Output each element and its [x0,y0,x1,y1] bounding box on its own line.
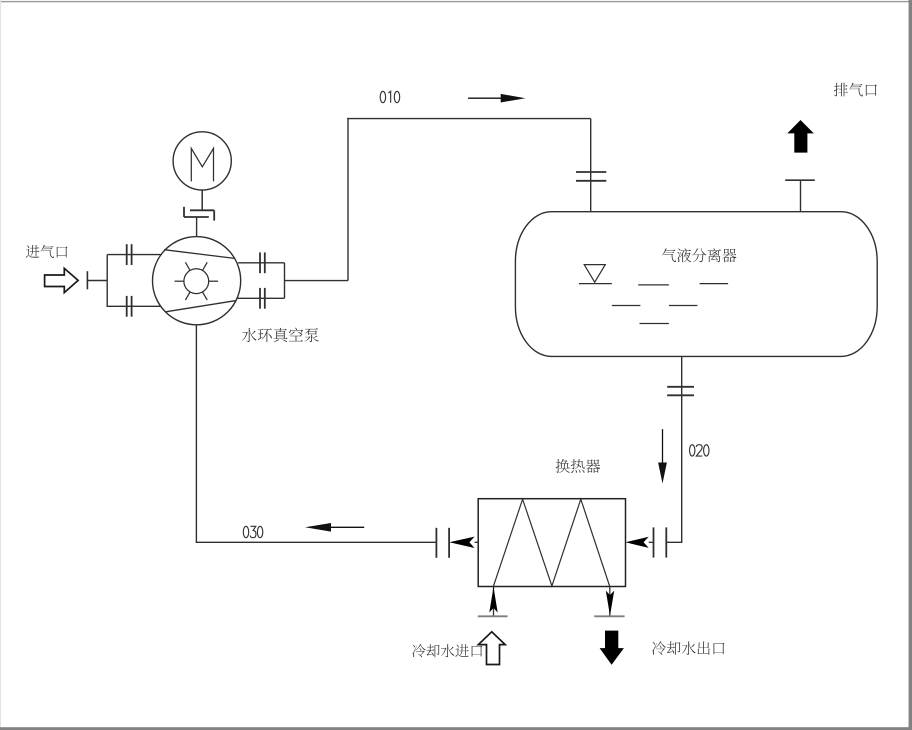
pump body circle [153,237,241,325]
page left faint border [0,0,1,730]
pipe 030 horizontal [196,541,437,543]
hollow cooling water arrow up [478,632,505,665]
exchanger right flange [654,527,667,557]
separator inlet drop pipe [590,119,592,212]
separator drain pipe [681,356,683,542]
exchanger left flange [436,528,449,558]
coupling bracket [184,207,214,221]
cooling water inlet line [493,587,495,617]
hollow inlet arrow [45,268,79,292]
pump shaft [196,217,198,237]
pump return riser [195,325,197,543]
flow arrow on 020 [658,429,667,483]
heat exchanger coil zigzag [494,499,610,586]
right bottom branch pipe [238,297,285,299]
flow arrow on 010 [468,94,525,103]
page right scroll border [909,0,912,730]
exchanger left outlet stub [475,541,479,543]
right top branch pipe [238,262,285,264]
separator inlet flange [576,172,606,181]
exchanger left outlet dart arrow [449,537,474,548]
exchanger right inlet stub [649,541,654,543]
right top flange [260,252,265,273]
pump casing top chord [164,250,235,259]
cooling water outlet line [609,587,611,617]
right bottom flange [260,288,265,309]
motor circle M [173,132,231,190]
left manifold pipe [106,255,108,307]
label cooling water out [652,641,724,655]
label 010 [380,91,400,102]
riser pipe to line 010 [347,118,349,281]
drain elbow to exchanger [666,541,683,543]
cooling water outlet dart arrow down [606,591,614,616]
pump casing bottom chord [166,301,236,312]
drain flange [667,387,694,396]
label gas inlet [26,245,68,258]
right manifold pipe [284,263,286,299]
label gas-liquid separator [662,248,736,262]
pump outlet pipe [285,280,349,282]
exchanger right inlet dart arrow [626,537,649,548]
pipe 010 horizontal [347,118,590,120]
flow arrow on 030 [305,523,364,532]
liquid level dashes [612,284,728,324]
left bottom flange [127,296,132,317]
pump impeller hub [184,269,209,294]
vent pipe [800,180,802,212]
pump impeller spokes [175,262,219,300]
left top flange [127,244,132,265]
label exhaust port [834,83,877,97]
cooling water inlet dart arrow up [489,587,497,613]
motor shaft [201,190,203,210]
motor letter M [191,148,213,181]
left top branch pipe [107,254,161,256]
inlet stub pipe [87,280,108,282]
cooling water inlet tick [478,615,508,617]
solid cooling water arrow down [601,631,623,664]
label heat exchanger [556,459,601,473]
exhaust block arrow [789,121,813,152]
label 020 [690,445,710,456]
left bottom branch pipe [107,305,162,307]
label water-ring vacuum pump [242,328,319,343]
page bottom border bar [0,727,912,730]
label 030 [243,526,262,537]
gas-liquid separator vessel [515,212,877,357]
cooling water outlet tick [594,615,624,617]
vent tick [785,179,815,181]
label cooling water in [412,644,482,657]
page top border line [0,1,910,2]
heat exchanger shell [478,499,625,587]
inlet end tick [86,271,88,289]
liquid level symbol triangle [579,265,612,284]
